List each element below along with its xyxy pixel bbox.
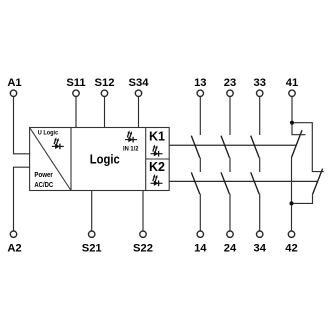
svg-text:K2: K2 [149, 160, 165, 174]
svg-text:14: 14 [194, 242, 207, 254]
svg-text:23: 23 [224, 77, 236, 89]
svg-text:IN 1/2: IN 1/2 [123, 146, 139, 153]
svg-text:33: 33 [253, 77, 265, 89]
svg-text:K1: K1 [149, 130, 165, 144]
svg-text:42: 42 [285, 242, 297, 254]
svg-text:A2: A2 [7, 242, 21, 254]
svg-text:S22: S22 [133, 242, 153, 254]
svg-text:AC/DC: AC/DC [34, 182, 53, 189]
svg-text:S34: S34 [129, 77, 150, 89]
svg-text:U Logic: U Logic [38, 129, 59, 136]
svg-text:S11: S11 [66, 77, 85, 89]
svg-text:13: 13 [194, 77, 206, 89]
svg-text:41: 41 [286, 77, 298, 89]
svg-text:S21: S21 [82, 242, 102, 254]
svg-text:S12: S12 [95, 77, 115, 89]
svg-text:Power: Power [34, 172, 53, 179]
svg-text:A1: A1 [7, 77, 21, 89]
svg-text:34: 34 [253, 242, 266, 254]
svg-text:Logic: Logic [90, 152, 120, 166]
svg-text:24: 24 [224, 242, 237, 254]
